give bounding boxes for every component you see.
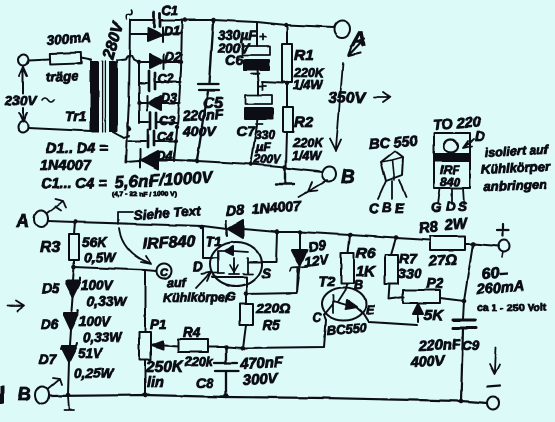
label 1K bbox=[356, 263, 376, 280]
svg-text:D4: D4 bbox=[157, 149, 173, 163]
label D1..D4 = bbox=[46, 141, 108, 157]
svg-text:B: B bbox=[18, 384, 31, 404]
label D8 bbox=[225, 203, 246, 220]
svg-text:lin: lin bbox=[147, 375, 164, 391]
capacitor C2 bbox=[139, 71, 181, 91]
label 51V bbox=[78, 346, 103, 361]
svg-text:E: E bbox=[366, 303, 375, 317]
svg-text:220Ω: 220Ω bbox=[255, 300, 290, 316]
label 330uF bbox=[218, 28, 257, 43]
resistor R5 bbox=[240, 294, 253, 348]
label 27 ohm bbox=[427, 251, 458, 270]
svg-text:B: B bbox=[341, 167, 355, 188]
BC550 legs bbox=[378, 180, 406, 199]
label C6 bbox=[225, 53, 244, 69]
bracket siehe text bbox=[118, 212, 133, 224]
label 330 µF 200V bbox=[253, 128, 282, 166]
label 60- bbox=[481, 264, 508, 283]
diode D1 bbox=[130, 27, 182, 42]
label D9 bbox=[307, 238, 327, 255]
svg-text:BC550: BC550 bbox=[326, 320, 368, 338]
BC550 package drawing bbox=[381, 151, 403, 181]
label C5 bbox=[203, 95, 225, 112]
svg-text:D1: D1 bbox=[164, 24, 180, 38]
transformer Tr1 bbox=[90, 61, 118, 132]
label C4 bbox=[157, 130, 173, 144]
wire top rail bbox=[130, 20, 334, 27]
label R7 bbox=[399, 250, 418, 266]
svg-text:D3: D3 bbox=[161, 91, 177, 105]
label BC 550 bbox=[368, 134, 418, 153]
svg-text:220nF: 220nF bbox=[181, 106, 224, 124]
terminal B lower bbox=[35, 387, 49, 404]
svg-text:330: 330 bbox=[398, 265, 422, 281]
resistor R3 bbox=[69, 222, 79, 267]
label R2 bbox=[294, 114, 314, 131]
svg-text:R4: R4 bbox=[183, 325, 201, 340]
svg-text:C: C bbox=[369, 201, 379, 216]
wire bbox=[28, 128, 91, 131]
label R8 2W bbox=[418, 215, 470, 237]
svg-text:300mA: 300mA bbox=[46, 30, 91, 48]
junction dots right bbox=[200, 225, 476, 404]
capacitor C1 bbox=[154, 13, 160, 28]
arrow left margin bbox=[7, 301, 24, 311]
label auf bbox=[167, 276, 188, 290]
svg-text:2W: 2W bbox=[443, 215, 470, 234]
svg-text:1/4W: 1/4W bbox=[293, 78, 323, 92]
label R3 bbox=[40, 239, 61, 256]
label anbringen bbox=[484, 177, 547, 194]
label D mosfet bbox=[193, 259, 203, 274]
label D7 bbox=[39, 352, 58, 367]
terminal mains N bbox=[18, 122, 28, 133]
capacitor C5 bbox=[197, 21, 219, 160]
resistor R6 bbox=[341, 235, 354, 290]
svg-text:400V: 400V bbox=[409, 353, 446, 371]
svg-text:1N4007: 1N4007 bbox=[40, 158, 92, 174]
svg-text:D5: D5 bbox=[42, 281, 60, 296]
label 1/4W bbox=[292, 149, 322, 163]
wire gate row bbox=[246, 268, 298, 294]
zener D7 bbox=[61, 343, 77, 394]
label Siehe Text bbox=[133, 203, 201, 223]
svg-text:auf: auf bbox=[167, 276, 188, 290]
label 0,33W bbox=[83, 330, 123, 345]
wire secondary bottom to bus bbox=[113, 132, 129, 138]
svg-text:D6: D6 bbox=[41, 317, 59, 332]
label D2 bbox=[165, 50, 181, 64]
junction dots lower left bbox=[66, 220, 229, 399]
potentiometer P1 bbox=[139, 270, 163, 395]
wire R1 bottom to C6/C7 junction bbox=[262, 82, 283, 83]
label 220 ohm bbox=[255, 300, 290, 316]
mosfet T1 bbox=[210, 242, 262, 289]
label 220nF bbox=[181, 106, 224, 124]
arrow marks at A lower bbox=[47, 199, 66, 213]
arrow from B down-left bbox=[298, 180, 327, 197]
arrow marks at B lower bbox=[48, 378, 62, 389]
label 0,25W bbox=[74, 366, 114, 381]
label R1 bbox=[294, 47, 313, 64]
label 5K bbox=[424, 307, 444, 324]
svg-text:A: A bbox=[15, 211, 29, 231]
label R5 bbox=[262, 317, 280, 333]
ground bbox=[276, 168, 294, 184]
label BC550 bbox=[326, 320, 368, 338]
label B lower bbox=[18, 384, 31, 404]
transistor T2 bbox=[322, 288, 366, 321]
label R6 bbox=[356, 245, 376, 262]
wire right riser bbox=[463, 244, 473, 319]
svg-text:260mA: 260mA bbox=[475, 279, 525, 298]
label IRF 840 on package bbox=[440, 163, 460, 189]
svg-text:C7: C7 bbox=[237, 123, 256, 139]
svg-text:5K: 5K bbox=[424, 307, 444, 324]
zener D6 bbox=[64, 310, 78, 345]
scan artifact left edge bbox=[0, 386, 4, 404]
svg-text:BC 550: BC 550 bbox=[368, 134, 418, 153]
svg-text:anbringen: anbringen bbox=[484, 177, 547, 194]
svg-text:C2: C2 bbox=[158, 72, 174, 86]
svg-text:S: S bbox=[458, 199, 467, 214]
wire gate node bbox=[246, 289, 247, 294]
arrow A to B long bbox=[330, 63, 343, 151]
label Kühlkörper bbox=[480, 158, 551, 177]
label D3 bbox=[161, 91, 177, 105]
svg-text:220K: 220K bbox=[292, 136, 324, 150]
svg-text:R1: R1 bbox=[294, 47, 313, 64]
wire emitter row to collector riser bbox=[226, 320, 326, 348]
label 100V bbox=[79, 314, 112, 329]
node C circle bbox=[157, 264, 172, 280]
label 220K bbox=[292, 136, 324, 150]
svg-text:0,25W: 0,25W bbox=[74, 366, 114, 381]
label 100V bbox=[81, 278, 114, 293]
label R4 bbox=[183, 325, 201, 340]
label 470nF bbox=[238, 354, 284, 373]
svg-text:D: D bbox=[446, 199, 456, 214]
label Tr1 bbox=[65, 108, 87, 124]
wire drain branch bbox=[203, 226, 211, 258]
plus sign bbox=[497, 224, 509, 236]
label 230V~ bbox=[4, 93, 54, 108]
svg-text:C1: C1 bbox=[162, 4, 178, 18]
wire source to rail bbox=[248, 233, 277, 262]
label C bbox=[312, 311, 322, 325]
svg-text:56K: 56K bbox=[82, 235, 108, 250]
label S mosfet bbox=[262, 266, 271, 281]
resistor R1 bbox=[282, 25, 292, 107]
svg-text:400V: 400V bbox=[182, 123, 217, 139]
label 400V bbox=[182, 123, 217, 139]
wire emitter to P2 wiper bbox=[364, 314, 417, 325]
junction dots filter bbox=[283, 81, 289, 170]
svg-text:R7: R7 bbox=[399, 250, 418, 266]
terminal plus bbox=[499, 240, 510, 257]
label C7 bbox=[237, 123, 256, 139]
svg-text:ca 1 - 250 Volt: ca 1 - 250 Volt bbox=[477, 302, 547, 314]
label 200V bbox=[217, 41, 251, 56]
label lin bbox=[147, 375, 164, 391]
terminal B top bbox=[322, 167, 336, 182]
stub below rail bbox=[64, 396, 74, 410]
label C3 bbox=[159, 114, 175, 128]
label 250K bbox=[145, 359, 185, 376]
wire to plus terminal bbox=[473, 244, 499, 246]
svg-text:51V: 51V bbox=[78, 346, 103, 361]
svg-text:µF: µF bbox=[255, 140, 271, 154]
junction dots bridge bbox=[127, 18, 289, 167]
svg-text:1/4W: 1/4W bbox=[292, 149, 322, 163]
arrow from A down-left bbox=[348, 39, 364, 56]
svg-text:R2: R2 bbox=[294, 114, 314, 131]
TO220 legs bbox=[438, 188, 464, 204]
terminal mains L bbox=[18, 55, 28, 66]
label 220nF bbox=[417, 337, 462, 355]
wire bbox=[81, 58, 91, 60]
svg-text:C6: C6 bbox=[225, 53, 244, 69]
svg-text:0,33W: 0,33W bbox=[87, 294, 127, 309]
svg-text:D8: D8 bbox=[225, 203, 246, 220]
terminal A lower bbox=[34, 211, 48, 228]
label 1/4W bbox=[293, 78, 323, 92]
svg-text:träge: träge bbox=[45, 68, 79, 85]
capacitor C7 electrolytic bbox=[245, 82, 273, 163]
svg-text:R3: R3 bbox=[40, 239, 61, 256]
label TO220 bbox=[432, 115, 481, 134]
capacitor C6 electrolytic bbox=[243, 22, 270, 82]
svg-text:C8: C8 bbox=[196, 376, 214, 391]
label (4,7 - 22 nF / 1000 V) bbox=[112, 191, 177, 198]
label B transistor bbox=[354, 278, 363, 292]
svg-text:220k: 220k bbox=[184, 355, 214, 369]
svg-text:G: G bbox=[226, 290, 236, 304]
svg-text:C4: C4 bbox=[157, 130, 173, 144]
label C8 bbox=[196, 376, 214, 391]
resistor R4 bbox=[163, 339, 226, 352]
label E bbox=[366, 303, 375, 317]
label 300V bbox=[242, 370, 280, 389]
terminal minus bbox=[487, 397, 499, 410]
svg-text:Tr1: Tr1 bbox=[65, 108, 87, 124]
label IRF840 bbox=[142, 233, 195, 253]
svg-text:D2: D2 bbox=[165, 50, 181, 64]
svg-text:P2: P2 bbox=[426, 275, 443, 291]
wire B to divider bbox=[285, 168, 322, 172]
svg-text:250K: 250K bbox=[145, 359, 185, 376]
label 56K bbox=[82, 235, 108, 250]
arrow down to N terminal bbox=[19, 108, 27, 122]
label ca 1 - 250 Volt bbox=[477, 302, 547, 314]
label C1...C4 = bbox=[41, 176, 107, 192]
potentiometer P2 bbox=[403, 290, 464, 322]
label C1 bbox=[162, 4, 178, 18]
svg-text:100V: 100V bbox=[81, 278, 114, 293]
diode D8 bbox=[226, 220, 277, 238]
zener D5 bbox=[66, 267, 80, 311]
curved arrow to C circle bbox=[119, 228, 151, 264]
label 300mA bbox=[46, 30, 91, 48]
label D6 bbox=[41, 317, 59, 332]
label P1 bbox=[150, 317, 167, 332]
svg-text:D7: D7 bbox=[39, 352, 58, 367]
label 5,6nF/1000V bbox=[114, 168, 215, 192]
wire left bus bbox=[126, 20, 130, 163]
label T2 bbox=[319, 273, 336, 289]
svg-text:C1... C4 =: C1... C4 = bbox=[41, 176, 107, 192]
wire rail to R8 bbox=[277, 232, 430, 240]
svg-text:D: D bbox=[475, 128, 485, 144]
wire R3 bottom to P1 and C circle bbox=[74, 267, 156, 271]
label 1N4007 bbox=[251, 198, 302, 217]
svg-text:(4,7 - 22 nF / 1000 V): (4,7 - 22 nF / 1000 V) bbox=[112, 191, 177, 198]
label C9 bbox=[462, 338, 480, 353]
svg-text:C3: C3 bbox=[159, 114, 175, 128]
capacitor C9 bbox=[453, 320, 476, 401]
label D1 bbox=[164, 24, 180, 38]
wire bbox=[28, 59, 50, 60]
TO220 package bbox=[434, 133, 470, 188]
svg-text:300V: 300V bbox=[242, 370, 280, 389]
capacitor C4 bbox=[129, 130, 176, 147]
label B top bbox=[341, 167, 355, 188]
label 1N4007 bbox=[40, 158, 92, 174]
label 12V bbox=[303, 252, 330, 270]
label Kühlkörper lower bbox=[163, 291, 231, 305]
label A lower bbox=[15, 211, 29, 231]
svg-text:840: 840 bbox=[440, 175, 460, 189]
svg-text:0,5W: 0,5W bbox=[84, 250, 117, 265]
diode D4 bbox=[126, 149, 174, 169]
svg-text:IRF840: IRF840 bbox=[142, 233, 195, 253]
svg-text:R8: R8 bbox=[418, 218, 439, 237]
svg-text:G: G bbox=[431, 200, 442, 215]
label 220k bbox=[184, 355, 214, 369]
svg-text:T2: T2 bbox=[319, 273, 336, 289]
resistor R7 bbox=[385, 238, 404, 299]
label 0,5W bbox=[84, 250, 117, 265]
wire secondary top with hop over bus bbox=[117, 55, 139, 62]
capacitor C3 bbox=[139, 112, 177, 129]
svg-text:27Ω: 27Ω bbox=[427, 251, 458, 270]
svg-text:R6: R6 bbox=[356, 245, 376, 262]
label D callout with arrow bbox=[463, 128, 485, 148]
svg-text:200V: 200V bbox=[253, 154, 282, 166]
svg-text:B: B bbox=[382, 200, 392, 215]
label 350V bbox=[328, 90, 367, 107]
resistor R8 bbox=[430, 236, 473, 250]
wire bottom rail lower bbox=[49, 395, 487, 403]
svg-text:0,33W: 0,33W bbox=[83, 330, 123, 345]
arrow to mosfet bbox=[196, 272, 211, 288]
label A top bbox=[350, 28, 366, 51]
svg-text:R5: R5 bbox=[262, 317, 280, 333]
svg-text:C: C bbox=[312, 311, 322, 325]
minus sign bbox=[487, 386, 500, 387]
wire top rail lower bbox=[48, 221, 227, 229]
label 400V bbox=[409, 353, 446, 371]
wire inner-left vertical bbox=[138, 62, 140, 123]
svg-text:C9: C9 bbox=[462, 338, 480, 353]
label D4 bbox=[157, 149, 173, 163]
svg-text:230V: 230V bbox=[4, 93, 38, 108]
capacitor C8 bbox=[214, 347, 238, 396]
svg-text:D1.. D4 =: D1.. D4 = bbox=[46, 141, 108, 157]
zener D9 bbox=[290, 232, 308, 293]
label T1 bbox=[206, 234, 222, 249]
wire collector down bbox=[324, 315, 326, 320]
terminal A top bbox=[334, 21, 350, 38]
svg-text:Kühlkörper: Kühlkörper bbox=[163, 291, 231, 305]
label 260mA bbox=[475, 279, 525, 298]
fuse F1 300mA bbox=[50, 52, 81, 64]
label D5 bbox=[42, 281, 60, 296]
wire bottom rail bbox=[174, 160, 285, 167]
diode D3 bbox=[139, 96, 180, 110]
svg-text:S: S bbox=[262, 266, 271, 281]
label isoliert auf bbox=[484, 143, 550, 160]
label 330 bbox=[398, 265, 422, 281]
labels G D S bbox=[431, 199, 467, 215]
svg-text:E: E bbox=[395, 201, 405, 216]
label P2 bbox=[426, 275, 443, 291]
label 220K bbox=[293, 66, 325, 80]
label C2 bbox=[158, 72, 174, 86]
label G mosfet bbox=[226, 290, 236, 304]
labels C B E bbox=[369, 200, 405, 216]
svg-text:P1: P1 bbox=[150, 317, 167, 332]
arrow down right bbox=[490, 347, 500, 374]
arrow right after 350V bbox=[374, 92, 390, 102]
label 280V~ rotated bbox=[100, 9, 133, 62]
svg-text:350V: 350V bbox=[328, 90, 367, 107]
svg-text:TO 220: TO 220 bbox=[432, 115, 481, 134]
svg-text:100V: 100V bbox=[79, 314, 112, 329]
svg-text:220nF: 220nF bbox=[417, 337, 462, 355]
svg-text:D: D bbox=[193, 259, 203, 274]
arrow up to L terminal bbox=[19, 67, 27, 93]
label träge bbox=[45, 68, 79, 85]
resistor R2 bbox=[283, 107, 293, 167]
label 0,33W bbox=[87, 294, 127, 309]
wire right bus bbox=[174, 21, 182, 161]
diode D2 bbox=[139, 54, 181, 69]
